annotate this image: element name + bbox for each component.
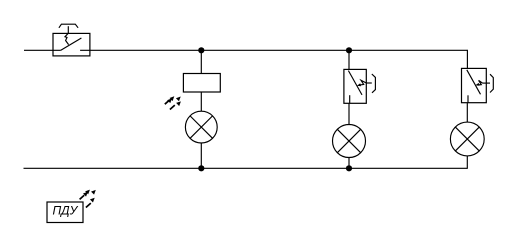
- receiver K1 box: [183, 74, 220, 93]
- zigzag actuator arrow SA2: [359, 80, 366, 85]
- remote control unit PDU box: [47, 202, 83, 223]
- wire EL2 to bottom rail: [348, 158, 350, 169]
- wire SA3 to lamp EL3: [466, 103, 468, 123]
- transmit arrow 2 from PDU: [86, 203, 91, 207]
- switch SA2 blade: [348, 71, 362, 95]
- wire top rail right segment: [80, 49, 467, 51]
- node junction dot top branch2: [346, 47, 352, 53]
- node junction dot top branch1: [198, 47, 204, 53]
- antenna mast wire: [67, 26, 69, 33]
- lamp EL1: [185, 111, 217, 143]
- actuator tick wire SA2: [366, 82, 372, 84]
- node junction dot bottom branch2: [346, 165, 352, 171]
- actuator tick wire SA3: [483, 82, 491, 84]
- lamp EL2: [333, 125, 366, 158]
- wire EL3 to bottom rail: [466, 156, 468, 169]
- zigzag actuator arrow SA3: [477, 80, 482, 85]
- antenna of SF1: [59, 24, 78, 28]
- switch SF1 blade: [61, 38, 82, 50]
- switch SA2 bottom contact stub: [349, 95, 351, 103]
- wire SA2 to lamp EL2: [348, 103, 350, 124]
- svg-text:ПДУ: ПДУ: [52, 204, 78, 218]
- wire bottom rail: [24, 167, 468, 169]
- switch SA3 bottom contact stub: [467, 95, 469, 102]
- radiation arrow 2 into K1: [170, 105, 175, 109]
- switch SA3 blade: [467, 70, 481, 95]
- switch SA2 box: [344, 69, 366, 103]
- wire top-right corner drop to box3: [466, 50, 468, 69]
- wire branch1 top: [200, 50, 202, 73]
- transmit arrow 1 from PDU: [80, 195, 85, 199]
- wire K1 to lamp EL1: [200, 92, 202, 111]
- switch SF1 enclosure box: [53, 33, 90, 56]
- node junction dot bottom branch1: [198, 165, 204, 171]
- wire top rail left segment: [24, 49, 61, 51]
- wire EL1 to bottom rail: [200, 143, 202, 168]
- wire branch2 top: [348, 50, 350, 69]
- lamp EL3: [450, 122, 484, 156]
- zigzag actuator inside SF1: [65, 33, 69, 44]
- acoustic bracket symbol SA2: [372, 74, 376, 93]
- switch SA3 box: [462, 68, 487, 102]
- radiation arrow 1 into K1: [165, 101, 169, 105]
- acoustic bracket symbol SA3: [490, 74, 493, 92]
